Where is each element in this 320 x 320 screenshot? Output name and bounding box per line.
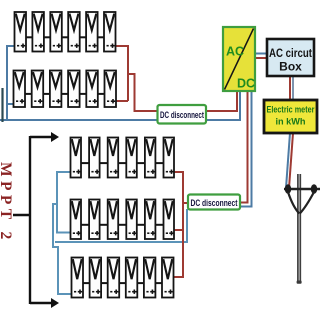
svg-text:DC: DC bbox=[237, 77, 255, 91]
svg-text:Box: Box bbox=[279, 60, 302, 74]
svg-text:AC: AC bbox=[226, 45, 244, 59]
svg-text:Electric meter: Electric meter bbox=[267, 105, 315, 116]
svg-text:DC disconnect: DC disconnect bbox=[191, 198, 239, 209]
svg-text:DC disconnect: DC disconnect bbox=[160, 110, 205, 121]
svg-text:in kWh: in kWh bbox=[275, 117, 305, 127]
svg-text:MPPT 2: MPPT 2 bbox=[0, 162, 14, 244]
svg-text:AC circut: AC circut bbox=[269, 46, 312, 60]
